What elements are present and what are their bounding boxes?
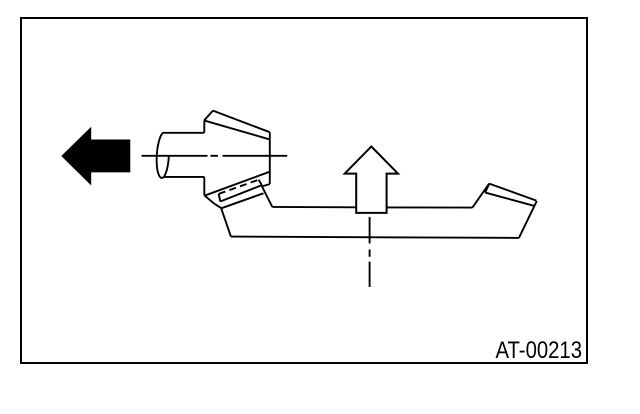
pipe end ellipse (left rim) (157, 133, 164, 178)
cone fitting body (204, 111, 269, 196)
connector from cone edge to bracket (262, 184, 272, 207)
tab right end edge (259, 180, 262, 185)
tab rear hidden edge (dashed) (219, 180, 259, 194)
right tab inner edge (485, 193, 534, 206)
tab left end edge (219, 194, 221, 202)
cone bottom edge (206, 172, 270, 196)
bracket body (221, 184, 537, 238)
figure border frame (21, 18, 587, 363)
lift direction arrow (outline, pointing up) (345, 147, 398, 213)
cone inner top line (205, 121, 270, 140)
cone lower chamfer to lip (204, 195, 221, 208)
tab front edge (220, 185, 262, 201)
right tab left lip (485, 184, 489, 193)
lower shoulder vertical (203, 177, 205, 195)
top chamfer (204, 111, 213, 121)
bracket left rise (221, 208, 231, 236)
bracket top edge (right of arrow) (387, 206, 473, 208)
cone top edge (213, 111, 270, 133)
removal direction arrow (filled, pointing left) (62, 128, 130, 184)
bracket bottom edge (231, 237, 519, 238)
cone right vertical edge (269, 132, 271, 184)
upper shoulder vertical (203, 120, 205, 133)
bracket right end edge (519, 201, 537, 238)
pipe (cylinder) (157, 133, 205, 178)
right tab outer edge (489, 184, 536, 201)
vertical center line (dash-dot) (369, 217, 371, 287)
svg-text:AT-00213: AT-00213 (496, 337, 583, 364)
bracket top edge (left of arrow) (272, 206, 356, 208)
tab front lip bottom edge (222, 193, 264, 208)
pipe top edge (163, 132, 205, 134)
pipe bottom edge (164, 176, 204, 178)
bracket clamp tab on cone (204, 180, 272, 209)
horizontal center line (dash-dot) (142, 155, 288, 157)
bracket right rise (472, 184, 489, 208)
